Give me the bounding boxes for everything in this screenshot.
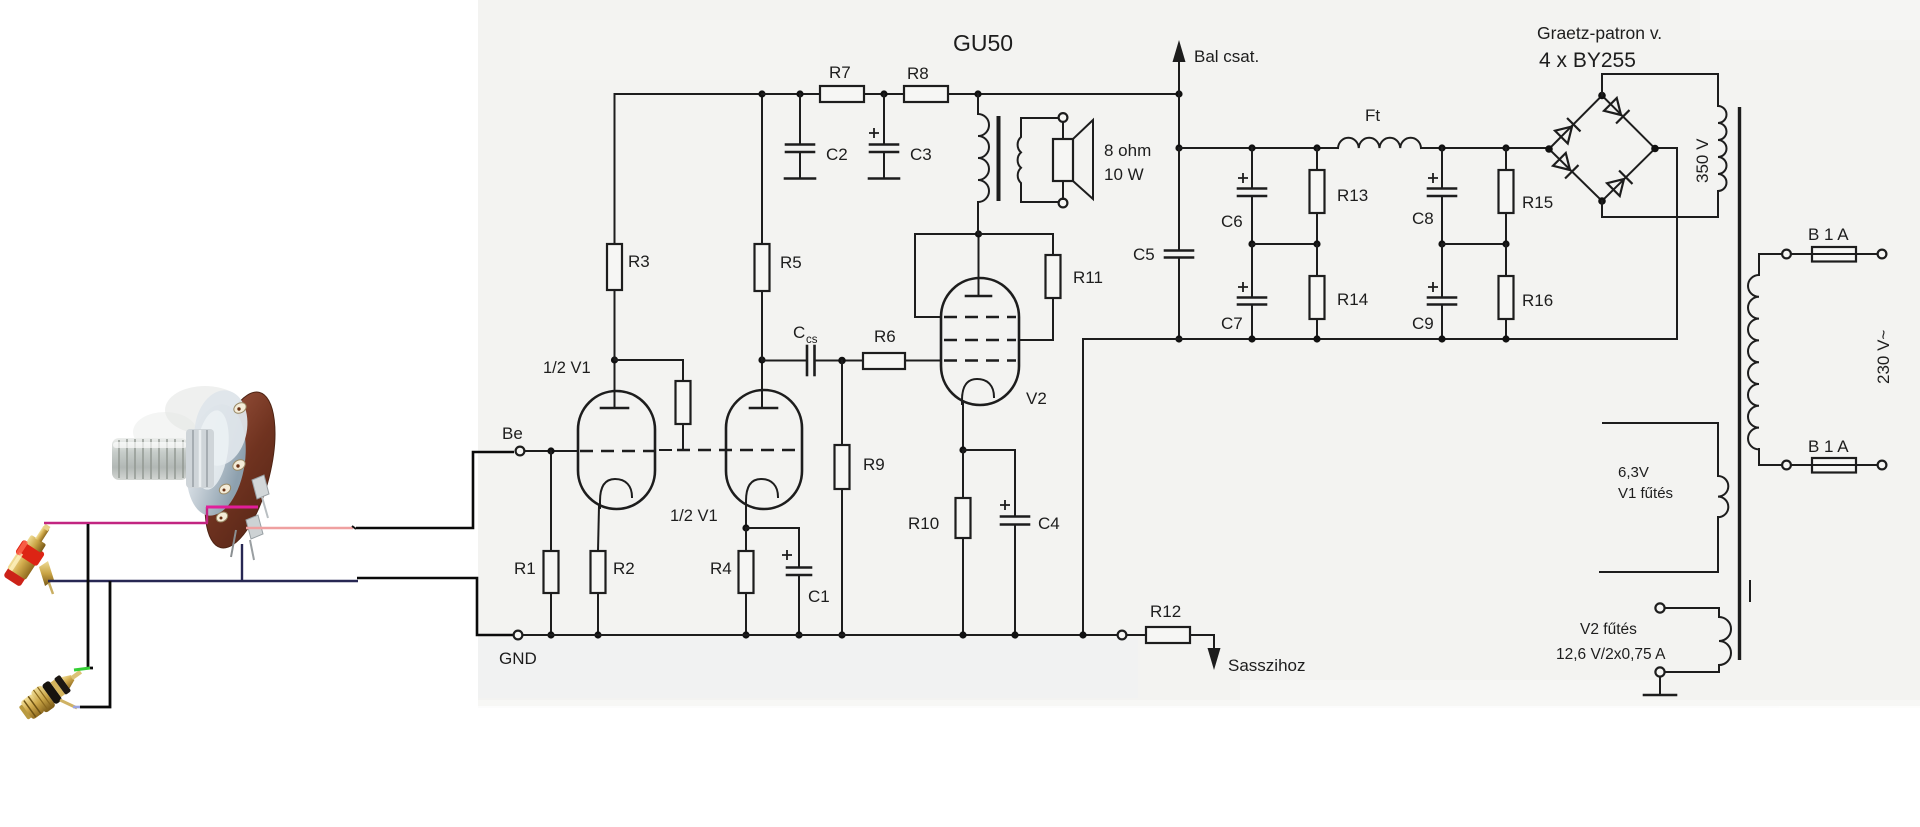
capacitor C7 <box>1221 244 1266 339</box>
transformer core <box>1738 107 1741 660</box>
wire R4 to bus <box>745 593 747 635</box>
wire R10 to bus <box>962 538 964 635</box>
resistor R11 <box>1046 255 1061 298</box>
svg-text:12,6 V/2x0,75 A: 12,6 V/2x0,75 A <box>1556 646 1666 663</box>
resistor R14 <box>1310 244 1369 339</box>
node dot C5 bus <box>1175 335 1182 342</box>
svg-text:R13: R13 <box>1337 186 1368 205</box>
pentode V2 cathode <box>962 379 994 404</box>
node dot bridge right <box>1651 145 1659 153</box>
wire grid dash between tubes <box>660 449 671 451</box>
wire C1 to bus <box>798 575 800 635</box>
svg-text:C6: C6 <box>1221 212 1243 231</box>
diode D3 lower-left <box>1553 153 1579 179</box>
wire pale red pot to black <box>246 527 353 529</box>
node terminal R12 <box>1118 631 1127 640</box>
wire R3 top to rail corner <box>615 94 763 244</box>
resistor R9 <box>835 445 850 489</box>
svg-text:Ft: Ft <box>1365 106 1380 125</box>
pentode V2 grid3 dashed <box>944 316 1016 318</box>
svg-text:R12: R12 <box>1150 602 1181 621</box>
svg-text:B 1 A: B 1 A <box>1808 437 1849 456</box>
fuse B1A bottom <box>1791 437 1877 473</box>
wire black to GND <box>357 578 513 635</box>
wire stopper to grid <box>682 424 684 449</box>
arrow Sasszihoz <box>1208 635 1306 675</box>
svg-text:8 ohm: 8 ohm <box>1104 141 1151 160</box>
node terminal fuse bottom right <box>1878 461 1887 470</box>
capacitor C1 <box>782 550 830 606</box>
pentode V2 grid2 dashed <box>944 339 1016 341</box>
bridge rectifier diamond <box>1549 96 1655 202</box>
wire magenta from red jack to pot <box>44 507 258 523</box>
wire to R12 <box>1127 634 1146 636</box>
wire C6 to R13 mid <box>1252 243 1317 245</box>
node anode V1a junction <box>611 356 618 363</box>
node dot C2 rail <box>796 90 803 97</box>
resistor R10 <box>956 498 971 538</box>
node dot C4 bus <box>1011 631 1018 638</box>
svg-text:R15: R15 <box>1522 193 1553 212</box>
transformer heater winding 6.3V <box>1600 423 1728 572</box>
node dot R15 rail <box>1502 144 1509 151</box>
node dot R7/R8/C3 <box>880 90 887 97</box>
wire B+ rail <box>1179 147 1338 149</box>
wire ground bus <box>523 634 1117 636</box>
resistor R7 <box>820 86 864 102</box>
svg-text:R14: R14 <box>1337 290 1368 309</box>
node dot bridge bottom <box>1598 197 1606 205</box>
capacitor C5 <box>1133 148 1193 339</box>
wire black drop jack signal <box>88 524 93 668</box>
red jack solder lug <box>39 561 54 586</box>
svg-text:R5: R5 <box>780 253 802 272</box>
svg-text:V1 fűtés: V1 fűtés <box>1618 485 1673 502</box>
RCA jack black photo <box>16 661 89 724</box>
wire coupling step to V1b grid <box>615 360 684 381</box>
node cathode junction <box>959 446 966 453</box>
node anode junction <box>975 230 982 237</box>
diode D2 upper-right <box>1604 98 1630 124</box>
node dot rail R5 <box>758 90 765 97</box>
transformer OPT core <box>997 116 1001 201</box>
node dot R10 bus <box>959 631 966 638</box>
wire R9 to bus <box>841 489 843 635</box>
triode V1b grid dashed <box>677 449 800 451</box>
node dot C7 bus <box>1248 335 1255 342</box>
transformer OPT secondary <box>1018 118 1021 202</box>
resistor R8 <box>904 86 948 102</box>
node Be terminal <box>516 447 525 456</box>
svg-text:V2: V2 <box>1026 389 1047 408</box>
svg-text:C7: C7 <box>1221 314 1243 333</box>
node dot R2 bus <box>594 631 601 638</box>
svg-text:350 V: 350 V <box>1693 138 1712 183</box>
resistor R13 <box>1310 148 1369 244</box>
svg-text:R6: R6 <box>874 327 896 346</box>
wire V2 cathode down <box>962 402 964 450</box>
wire R4 drop <box>745 528 747 551</box>
wire bridge bottom to HV winding <box>1602 191 1718 217</box>
node dot C6 mid <box>1248 240 1255 247</box>
resistor R4 <box>739 551 754 593</box>
svg-text:R7: R7 <box>829 63 851 82</box>
node dot R9 bus <box>838 631 845 638</box>
wire black to Be <box>356 452 514 528</box>
wire V1b cathode down <box>745 506 747 528</box>
svg-text:V2 fűtés: V2 fűtés <box>1580 621 1637 638</box>
pentode V2 envelope <box>941 278 1019 405</box>
node terminal fuse top left <box>1782 250 1791 259</box>
node dot R14 bus <box>1313 335 1320 342</box>
wire R5 vertical <box>761 291 763 360</box>
svg-text:C4: C4 <box>1038 514 1060 533</box>
node dot riser bus <box>1079 631 1086 638</box>
wire Be to grid <box>525 450 577 452</box>
transformer mains winding 230V <box>1748 275 1759 449</box>
svg-text:C1: C1 <box>808 587 830 606</box>
capacitor C4 <box>1000 500 1060 533</box>
svg-text:1/2 V1: 1/2 V1 <box>670 507 718 525</box>
node junction Ccs/R9 <box>838 357 846 365</box>
svg-text:4 x BY255: 4 x BY255 <box>1539 49 1636 72</box>
node junction Be/R1 <box>547 447 554 454</box>
svg-text:R3: R3 <box>628 252 650 271</box>
wire green stub <box>74 668 90 670</box>
capacitor C2 <box>785 94 848 179</box>
svg-text:R11: R11 <box>1073 268 1103 287</box>
node dot R16 bus <box>1502 335 1509 342</box>
svg-text:6,3V: 6,3V <box>1618 464 1649 481</box>
resistor R6 <box>863 353 905 369</box>
wire mains bottom lead <box>1759 449 1781 465</box>
wire C8 to R15 mid <box>1442 243 1506 245</box>
node dot C8 mid <box>1438 240 1445 247</box>
wire R12 to arrow <box>1190 634 1214 636</box>
wire pot wiper blue <box>241 544 243 581</box>
node dot C9 bus <box>1438 335 1445 342</box>
node dot B+ takeoff <box>1175 144 1182 151</box>
wire anode V1b to Ccs <box>762 360 806 362</box>
triode half V1b envelope <box>726 390 802 509</box>
wire mains top lead <box>1759 254 1781 275</box>
wire R1 drop <box>550 451 552 551</box>
resistor grid stopper <box>676 381 691 424</box>
svg-text:1/2 V1: 1/2 V1 <box>543 359 591 377</box>
node dot R13 rail <box>1313 144 1320 151</box>
wire R5 top to rail <box>761 94 763 244</box>
wire R11 to g2 <box>1019 298 1053 340</box>
svg-text:R1: R1 <box>514 559 536 578</box>
diode D4 lower-right <box>1607 171 1633 197</box>
resistor R5 <box>755 244 770 291</box>
pentode V2 grid1 dashed <box>944 359 1016 361</box>
wire bus riser <box>1083 339 1677 635</box>
node GND terminal <box>514 631 523 640</box>
node anode V1b junction <box>758 356 765 363</box>
potentiometer photo <box>112 385 288 560</box>
fuse B1A top <box>1791 225 1877 262</box>
node dot R4 bus <box>742 631 749 638</box>
triode V1a anode <box>601 407 628 410</box>
resistor R12 <box>1146 627 1190 643</box>
svg-text:GND: GND <box>499 649 537 668</box>
svg-text:C: C <box>793 323 805 342</box>
svg-text:GU50: GU50 <box>953 30 1013 56</box>
svg-text:R9: R9 <box>863 455 885 474</box>
node terminal fuse bottom left <box>1782 461 1791 470</box>
ground symbol <box>1644 677 1676 695</box>
resistor R16 <box>1499 244 1554 339</box>
inductor Ft <box>1338 138 1421 148</box>
svg-text:Bal csat.: Bal csat. <box>1194 47 1259 66</box>
scanned schematic paper area <box>478 0 1920 706</box>
node dot bridge top <box>1598 92 1606 100</box>
svg-text:R10: R10 <box>908 514 939 533</box>
wire C4 to bus <box>1014 525 1016 636</box>
transformer HV winding 350V <box>1718 106 1727 191</box>
node dot C8 rail <box>1438 144 1445 151</box>
svg-text:230 V~: 230 V~ <box>1874 330 1893 384</box>
wire R2 to bus <box>597 593 599 635</box>
triode V1b cathode <box>746 479 778 508</box>
RCA jack red photo <box>1 518 59 588</box>
faint scan tone patches <box>478 0 1920 708</box>
resistor R3 <box>607 244 622 290</box>
wire cathode to C4 <box>963 450 1015 516</box>
wire Ccs to R6 <box>815 360 864 362</box>
wire V1a cathode to R2 <box>598 506 599 551</box>
triode V1a grid dashed <box>580 450 656 452</box>
svg-text:C8: C8 <box>1412 209 1434 228</box>
pentode V2 anode <box>966 295 991 298</box>
resistor R15 <box>1499 148 1554 244</box>
transformer heater winding V2 <box>1556 603 1731 676</box>
wire cathode to C1 <box>746 528 799 567</box>
resistor R2 <box>591 551 606 593</box>
wire R3 vertical <box>614 290 616 360</box>
resistor R1 <box>544 551 559 593</box>
svg-text:Sasszihoz: Sasszihoz <box>1228 656 1305 675</box>
capacitor Ccs <box>793 323 818 375</box>
wire bridge right return <box>1655 148 1677 339</box>
svg-text:R8: R8 <box>907 64 929 83</box>
svg-text:C3: C3 <box>910 145 932 164</box>
svg-text:Graetz-patron v.: Graetz-patron v. <box>1537 23 1662 43</box>
capacitor C9 <box>1412 244 1456 339</box>
svg-text:10 W: 10 W <box>1104 165 1144 184</box>
svg-text:R2: R2 <box>613 559 635 578</box>
svg-text:cs: cs <box>806 334 818 346</box>
node dot OPT rail <box>974 90 981 97</box>
node cathode junction <box>742 524 749 531</box>
node terminal fuse top right <box>1878 250 1887 259</box>
triode half V1a envelope <box>578 391 655 509</box>
wire R1 to bus <box>550 593 552 635</box>
node dot R15 mid <box>1502 240 1509 247</box>
wire joint ticks <box>352 526 356 529</box>
wire pale blue stub <box>73 706 80 709</box>
triode V1a cathode <box>600 479 632 508</box>
wire R10 drop <box>962 450 964 498</box>
svg-text:C5: C5 <box>1133 245 1155 264</box>
node dot R1 bus <box>547 631 554 638</box>
node dot C1 bus <box>795 631 802 638</box>
triode V1b anode <box>750 407 777 410</box>
svg-text:R4: R4 <box>710 559 732 578</box>
wire anode junction to R11 <box>979 234 1054 255</box>
node dot bridge left <box>1545 145 1553 153</box>
wire R6 to V2 grid <box>905 360 941 362</box>
transformer OPT primary <box>978 94 989 234</box>
capacitor C8 <box>1412 148 1456 244</box>
wire R9 drop <box>841 361 843 446</box>
capacitor C6 <box>1221 148 1266 244</box>
node dot rail Bal riser <box>1175 90 1182 97</box>
wire black drop jack ground <box>80 581 110 707</box>
svg-text:C2: C2 <box>826 145 848 164</box>
svg-text:C9: C9 <box>1412 314 1434 333</box>
node dot R13 mid <box>1313 240 1320 247</box>
capacitor C3 <box>869 94 932 179</box>
wire top rail <box>762 93 1179 95</box>
wire bridge top to HV winding <box>1602 74 1718 106</box>
speaker <box>1021 113 1151 207</box>
arrow Bal csat <box>1173 40 1260 148</box>
svg-text:Be: Be <box>502 424 523 443</box>
svg-text:B 1 A: B 1 A <box>1808 225 1849 244</box>
node dot C6 rail <box>1248 144 1255 151</box>
black jack lower pin <box>60 700 77 708</box>
svg-text:R16: R16 <box>1522 291 1553 310</box>
diode D1 upper-left <box>1555 118 1581 144</box>
wire blue bus from red jack ground <box>48 580 358 583</box>
wire g3 feedback loop <box>915 234 979 317</box>
